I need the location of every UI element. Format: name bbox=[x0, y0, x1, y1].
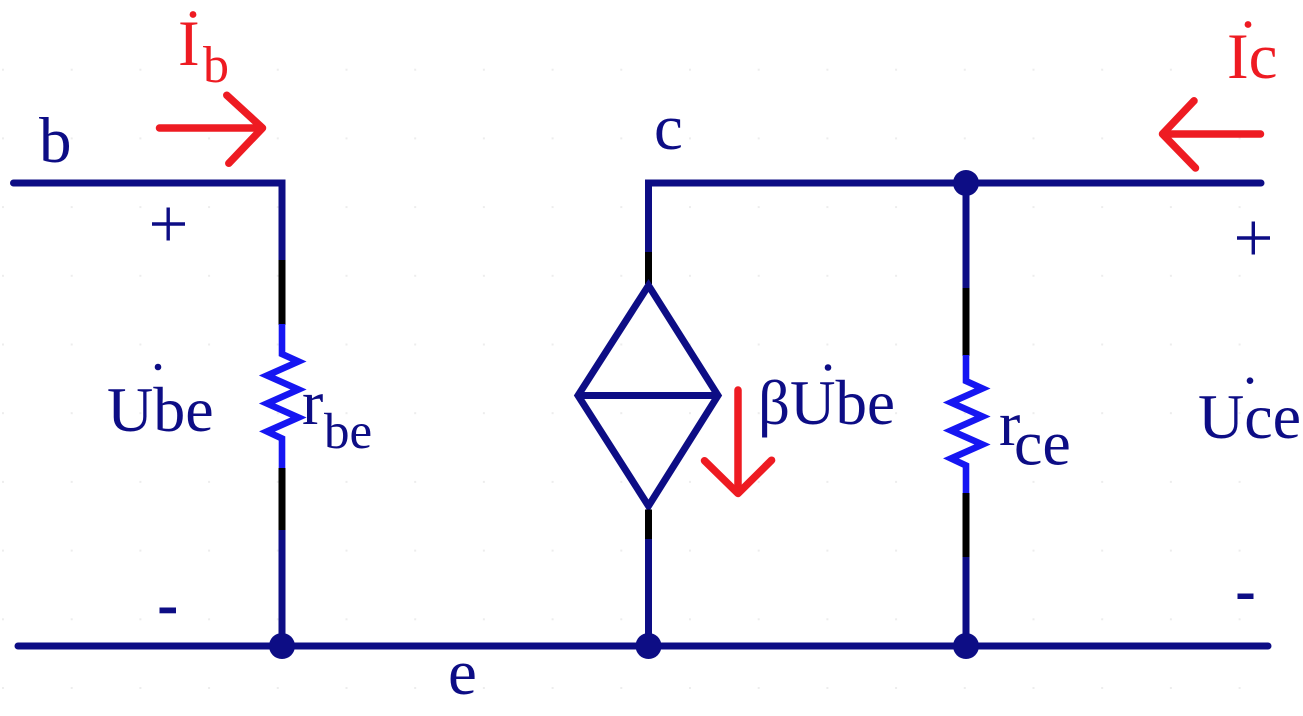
wire b rail top-left horizontal with corner down bbox=[14, 183, 283, 262]
arrow Ib (red, pointing right) bbox=[160, 95, 263, 163]
wire c rail: corner at current source top, horizontal to right edge bbox=[649, 183, 1262, 254]
junction dot middle (source / e rail) bbox=[636, 633, 662, 659]
dot over U of bUbe bbox=[825, 364, 832, 371]
junction node dot at c rail / rce bbox=[953, 170, 979, 196]
dot over U of Uce bbox=[1247, 377, 1254, 384]
diamond crossbar bbox=[578, 392, 718, 399]
resistor rbe black lead top bbox=[279, 260, 286, 325]
wire rbe bottom to e rail bbox=[279, 530, 286, 646]
svg-text:r: r bbox=[302, 367, 323, 438]
resistor rce black lead top bbox=[963, 288, 970, 356]
black lead top of dependent source bbox=[645, 252, 652, 284]
resistor rbe body (blue zigzag) bbox=[267, 324, 299, 469]
svg-text:be: be bbox=[324, 404, 372, 460]
dot over U of Ube bbox=[155, 364, 162, 371]
resistor rbe black lead bottom bbox=[279, 468, 286, 531]
svg-text:c: c bbox=[654, 92, 683, 164]
wire e rail bottom bbox=[18, 643, 1268, 650]
black lead bottom of dependent source bbox=[645, 510, 652, 541]
svg-text:Ube: Ube bbox=[107, 374, 214, 445]
svg-text:Uce: Uce bbox=[1198, 381, 1301, 452]
minus sign left bbox=[160, 608, 177, 614]
svg-text:Ic: Ic bbox=[1227, 21, 1278, 93]
current label Ic (red, I with dot) bbox=[1227, 21, 1278, 93]
minus sign right bbox=[1238, 594, 1254, 600]
wire source bottom to e rail bbox=[645, 539, 652, 646]
plus sign right bbox=[1237, 222, 1270, 255]
svg-text:βUbe: βUbe bbox=[758, 368, 895, 438]
wire rce top bbox=[963, 183, 970, 289]
junction dot right (rce / e rail) bbox=[953, 633, 979, 659]
arrow Ic (red, pointing left) bbox=[1163, 101, 1261, 168]
svg-text:b: b bbox=[203, 37, 229, 94]
plus sign left bbox=[152, 208, 185, 241]
svg-text:I: I bbox=[178, 8, 200, 80]
current label Ib (red, I with dot, subscript b) bbox=[178, 8, 229, 94]
resistor rce black lead bottom bbox=[963, 493, 970, 558]
svg-text:e: e bbox=[448, 637, 477, 709]
svg-text:ce: ce bbox=[1014, 408, 1071, 479]
resistor rce body (blue zigzag) bbox=[951, 355, 983, 494]
wire rce bottom to e rail bbox=[963, 557, 970, 646]
svg-text:b: b bbox=[39, 105, 72, 177]
arrow bUbe (red, pointing down) bbox=[705, 390, 772, 494]
dependent current source diamond bbox=[578, 286, 718, 507]
junction dot left (rbe / e rail) bbox=[269, 633, 295, 659]
